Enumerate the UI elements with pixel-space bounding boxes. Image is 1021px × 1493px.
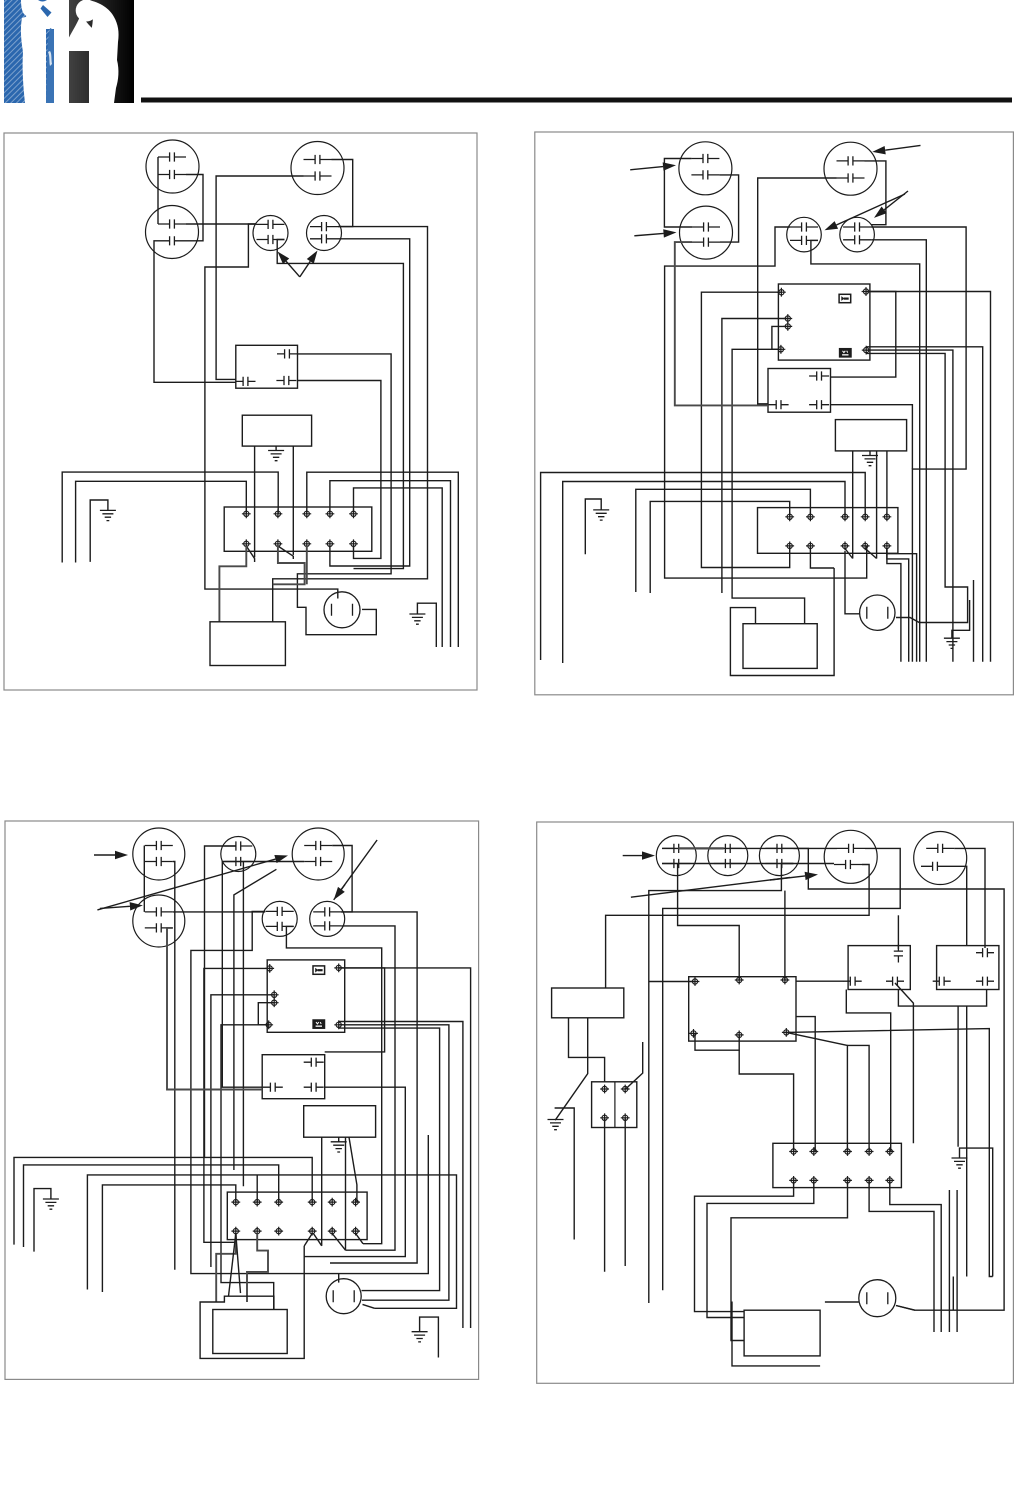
wire: [890, 1180, 941, 1332]
terminal 18 top: [274, 1198, 283, 1207]
connector P17: [656, 836, 696, 876]
wire: [887, 549, 901, 662]
wire: [952, 1277, 954, 1311]
motor M2: [860, 595, 895, 630]
diagram 2 frame: [535, 132, 1014, 695]
wire: [330, 239, 410, 566]
terminal 2 bottom: [274, 539, 283, 548]
connector P18: [708, 836, 748, 876]
terminal 16 bottom: [231, 1227, 240, 1236]
callout arrow to P8: [634, 233, 663, 235]
terminal 25 top: [865, 1147, 874, 1156]
terminal 15 bottom: [883, 542, 892, 551]
pressure switch P7: [824, 142, 877, 195]
wire: [76, 481, 247, 562]
wire: [649, 981, 695, 983]
pressure switch P14: [133, 895, 185, 947]
terminal 23 top: [809, 1147, 818, 1156]
wire: [956, 1190, 958, 1332]
connector P12: [221, 837, 256, 872]
wire: [332, 846, 352, 912]
wire: [306, 546, 308, 584]
terminal 14 bottom: [861, 542, 870, 551]
wire: [866, 353, 967, 622]
wire: [895, 983, 913, 1143]
terminal strip TB4: [773, 1143, 902, 1187]
wire: [831, 292, 896, 378]
wire: [205, 224, 338, 599]
pressure switch P3: [146, 206, 199, 259]
wire: [650, 501, 790, 593]
terminal strip TB3: [227, 1192, 367, 1240]
diagram 1 frame: [4, 133, 477, 690]
wire: [173, 862, 175, 1270]
wire: [307, 472, 459, 647]
wire: [731, 1180, 848, 1340]
terminal 23 bottom: [809, 1176, 818, 1185]
wire: [102, 1185, 235, 1292]
wire: [732, 349, 805, 623]
terminal 2 top: [274, 509, 283, 518]
terminal 3 bottom: [302, 539, 311, 548]
wire: [954, 848, 985, 948]
wire: [869, 1180, 934, 1332]
wire: [957, 1006, 959, 1147]
wire: [24, 1165, 279, 1247]
ground: [90, 500, 108, 562]
wire: [339, 1028, 440, 1291]
wire: [173, 911, 265, 913]
terminal 24 bottom: [843, 1176, 852, 1185]
terminal strip TB1: [224, 507, 372, 551]
callout arrow to P13: [97, 859, 275, 910]
wire: [286, 926, 381, 1243]
relay K3: [768, 369, 831, 413]
wire: [186, 175, 203, 241]
motor M1: [324, 592, 360, 628]
wire: [569, 1018, 605, 1082]
wire: [330, 481, 451, 647]
callout arrow to P4: [286, 261, 300, 277]
wire: [626, 1042, 643, 1089]
wire: [865, 161, 886, 225]
wire: [966, 1006, 968, 1276]
pressure switch P1: [146, 140, 199, 193]
wire: [876, 451, 878, 559]
wire: [234, 869, 277, 1170]
wire: [831, 405, 913, 469]
terminal 22 bottom: [789, 1176, 798, 1185]
wire: [887, 549, 917, 662]
wire: [242, 862, 244, 1187]
wire: [339, 1022, 463, 1329]
terminal 17 top: [253, 1198, 262, 1207]
battery B2: [743, 624, 817, 669]
connector P19: [759, 836, 799, 876]
wire: [886, 451, 888, 517]
connector block CB1: [592, 1082, 637, 1128]
wire: [649, 864, 794, 1304]
wire: [298, 381, 381, 559]
wire: [732, 1302, 820, 1366]
switch blade: [304, 1234, 312, 1247]
wire: [845, 551, 860, 614]
wire: [292, 446, 294, 555]
switch blade: [356, 1234, 363, 1244]
wire: [325, 968, 385, 1052]
pressure switch P8: [680, 206, 733, 259]
wire chain: [662, 863, 834, 865]
terminal 4 bottom: [326, 539, 335, 548]
motor M4: [859, 1280, 896, 1317]
wire: [887, 549, 909, 662]
wire: [811, 240, 920, 661]
wire: [739, 1050, 793, 1151]
callout arrow to P20: [631, 878, 790, 898]
relay K1: [236, 345, 298, 388]
wire: [154, 241, 236, 382]
junction box J2: [937, 946, 999, 990]
wire: [339, 1025, 449, 1300]
wire: [825, 1301, 859, 1303]
junction box J1: [848, 946, 910, 990]
wire: [339, 968, 471, 1328]
terminal 26 top: [885, 1147, 894, 1156]
ground: [869, 451, 871, 456]
wire: [722, 319, 788, 594]
wire: [707, 1180, 814, 1317]
switch blade: [278, 546, 293, 559]
pressure switch P6: [679, 142, 732, 195]
wire: [273, 227, 428, 622]
wire: [200, 1246, 304, 1358]
wire: [229, 1234, 236, 1297]
pressure switch P2: [291, 142, 344, 195]
wire: [664, 159, 692, 228]
switch blade: [845, 549, 853, 559]
wire: [847, 1045, 869, 1151]
timer module A3: [304, 1106, 376, 1138]
wire: [304, 1087, 405, 1256]
wire: [62, 472, 278, 562]
wire: [810, 549, 834, 569]
wire: [345, 1137, 347, 1250]
terminal 3 top: [302, 509, 311, 518]
terminal 26 bottom: [885, 1176, 894, 1185]
pressure switch P13: [292, 828, 344, 880]
wire: [14, 1157, 312, 1244]
terminal 13 top: [841, 512, 850, 521]
terminal 21 top: [351, 1198, 360, 1207]
switch blade: [246, 546, 254, 562]
wire chain: [662, 847, 837, 849]
wire: [758, 178, 837, 404]
terminal 16 top: [231, 1198, 240, 1207]
terminal 25 bottom: [865, 1176, 874, 1185]
wire: [663, 848, 901, 1290]
wire: [973, 580, 975, 662]
pressure switch P11: [133, 828, 185, 880]
wire: [321, 1137, 323, 1246]
wire: [143, 846, 145, 912]
terminal 18 bottom: [274, 1227, 283, 1236]
wire: [341, 926, 395, 1250]
terminal 19 bottom: [308, 1227, 317, 1236]
wire: [675, 242, 768, 405]
ground: [420, 1317, 439, 1357]
wire: [221, 1025, 274, 1310]
battery B1: [210, 622, 285, 666]
wire: [796, 980, 844, 982]
wire: [563, 482, 845, 664]
pressure switch P21: [914, 832, 967, 885]
wire: [87, 1175, 456, 1308]
timer module A2: [835, 420, 906, 451]
terminal 20 top: [328, 1198, 337, 1207]
connector P9: [787, 217, 822, 252]
wire: [555, 1018, 588, 1120]
terminal 5 bottom: [349, 539, 358, 548]
wire: [204, 968, 270, 1242]
wire: [852, 451, 854, 559]
wire: [678, 864, 740, 981]
wire: [222, 862, 304, 1088]
wire: [846, 990, 890, 1152]
wire: [948, 1190, 950, 1332]
wire: [665, 227, 867, 578]
terminal 13 bottom: [841, 542, 850, 551]
wire: [701, 292, 789, 567]
callout arrow to P11: [94, 854, 115, 856]
wire: [871, 227, 966, 662]
ground: [585, 499, 601, 554]
wire: [866, 347, 983, 662]
diagram 4 frame: [537, 822, 1014, 1383]
terminal 11 top: [785, 512, 794, 521]
terminal 1 bottom: [242, 539, 251, 548]
motor M3: [326, 1279, 361, 1314]
relay K6: [689, 977, 796, 1041]
callout arrow to P9: [836, 194, 905, 225]
connector P16: [310, 901, 345, 936]
wire: [211, 995, 274, 1267]
wire: [258, 1003, 274, 1025]
callout arrow to P14: [100, 906, 130, 908]
terminal 21 bottom: [351, 1227, 360, 1236]
wire: [871, 240, 926, 662]
wire: [167, 928, 262, 1090]
wire: [719, 175, 738, 242]
logo blue panel: [4, 0, 54, 103]
header rule: [141, 98, 1012, 103]
wire: [354, 488, 443, 647]
terminal 12 bottom: [806, 542, 815, 551]
wire: [273, 546, 305, 584]
terminal 4 top: [326, 509, 335, 518]
ground: [338, 1137, 340, 1142]
wire: [330, 912, 417, 1263]
wire: [604, 1118, 606, 1272]
terminal strip TB2: [758, 508, 898, 554]
terminal 1 top: [242, 509, 251, 518]
callout arrow to P5: [300, 261, 310, 277]
wire: [157, 157, 159, 224]
timer module A1: [242, 415, 311, 446]
wire chain: [678, 847, 723, 849]
wire: [624, 1118, 626, 1266]
terminal 11 bottom: [785, 542, 794, 551]
callout line to P16: [334, 840, 377, 900]
wire: [216, 176, 303, 379]
relay K4: [267, 960, 345, 1032]
wire: [297, 354, 391, 635]
wire: [256, 1175, 258, 1202]
wire: [796, 1017, 815, 1152]
wire: [949, 866, 967, 945]
wire: [730, 568, 834, 676]
wire: [338, 1274, 340, 1283]
wire: [896, 1306, 915, 1311]
terminal 22 top: [789, 1147, 798, 1156]
wire: [784, 891, 786, 980]
wire: [254, 446, 256, 557]
ground: [417, 603, 436, 647]
terminal 14 top: [861, 512, 870, 521]
terminal 5 top: [349, 509, 358, 518]
callout arrow to P7: [885, 145, 920, 150]
wire: [205, 846, 237, 1157]
diagram 3 frame: [5, 821, 479, 1379]
ground: [34, 1189, 51, 1252]
wire: [349, 1137, 357, 1202]
wire: [277, 240, 403, 569]
wire: [866, 292, 991, 662]
terminal 20 bottom: [328, 1227, 337, 1236]
wire: [772, 326, 788, 349]
terminal 17 bottom: [253, 1227, 262, 1236]
ground: [960, 1148, 993, 1276]
connector P4: [253, 216, 288, 251]
wire: [247, 1234, 268, 1303]
wire: [898, 990, 986, 1007]
wire: [695, 1033, 739, 1050]
switch blade: [865, 549, 876, 559]
wire: [363, 1304, 375, 1308]
ground: [952, 600, 970, 638]
module A4: [552, 988, 624, 1018]
switch blade: [332, 1234, 345, 1251]
connector P10: [840, 217, 875, 252]
wire: [866, 350, 953, 662]
switch blade: [313, 1234, 321, 1246]
wire: [606, 865, 870, 989]
wire: [541, 473, 866, 661]
wire: [897, 915, 899, 949]
terminal 24 top: [843, 1147, 852, 1156]
callout arrow to P6: [630, 167, 663, 170]
logo black panel: [69, 0, 134, 103]
terminal 19 top: [308, 1198, 317, 1207]
connector P5: [307, 216, 342, 251]
wire: [219, 546, 246, 622]
wire: [555, 1108, 575, 1240]
wire: [236, 1234, 241, 1294]
battery B4: [744, 1310, 820, 1356]
connector P15: [262, 901, 297, 936]
ground: [548, 1120, 564, 1130]
wire: [786, 1032, 847, 1151]
callout arrow to P17: [623, 855, 642, 857]
wire: [216, 1234, 236, 1303]
wire: [332, 160, 353, 227]
wire: [786, 1029, 992, 1277]
terminal 15 top: [883, 512, 892, 521]
wire: [695, 1180, 794, 1311]
wire: [186, 223, 257, 225]
relay K2: [778, 284, 870, 360]
pressure switch P20: [824, 830, 877, 883]
wire: [191, 911, 428, 1273]
callout arrow to P10: [884, 191, 908, 210]
terminal 12 top: [806, 512, 815, 521]
ground: [275, 446, 277, 450]
wire: [793, 848, 1004, 1310]
relay K5: [262, 1055, 325, 1099]
battery B3: [213, 1310, 287, 1354]
wire: [636, 489, 811, 592]
